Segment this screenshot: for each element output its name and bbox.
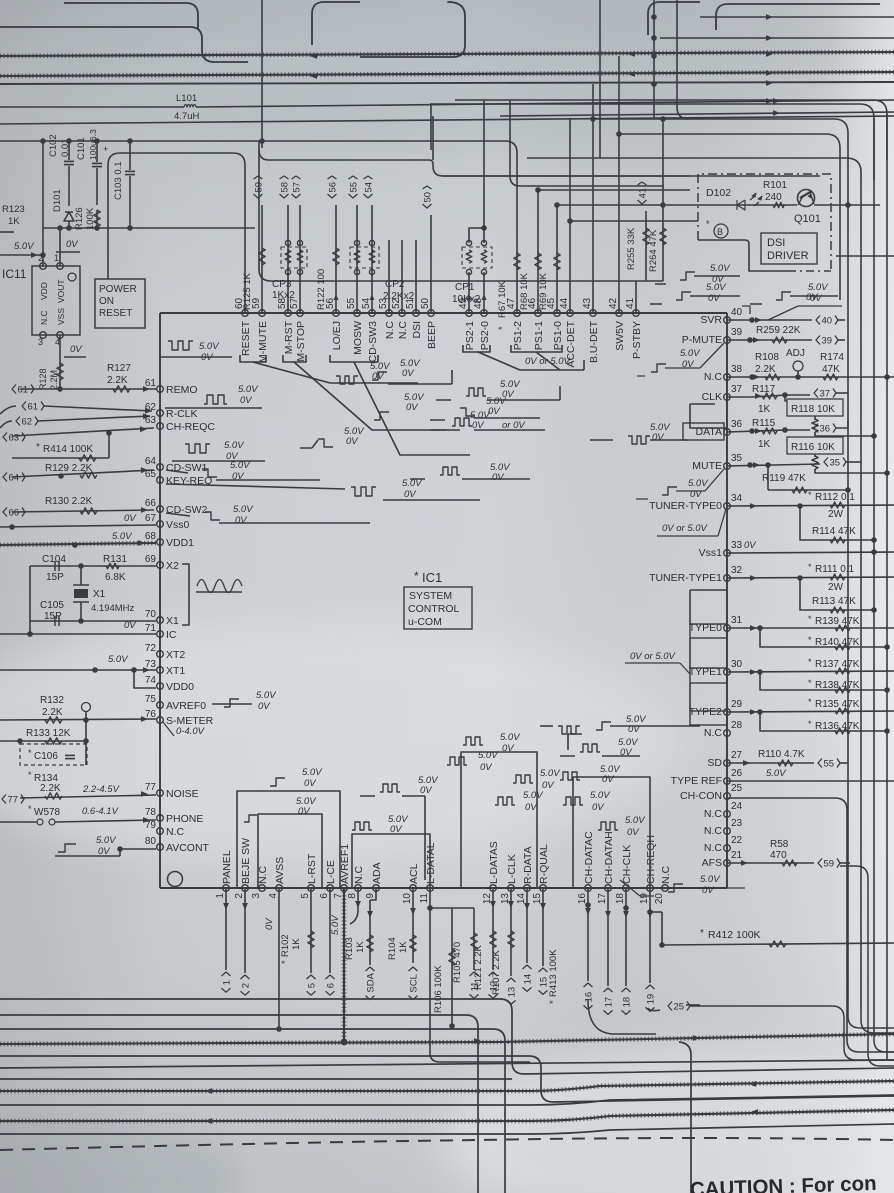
- wire DSI driver interior: [698, 240, 788, 271]
- svg-text:34: 34: [731, 493, 743, 504]
- wire top F y=160: [259, 150, 429, 160]
- connector arrow 62: [0, 421, 12, 428]
- CAUTION text: [689, 1172, 876, 1193]
- svg-text:0V: 0V: [602, 774, 615, 785]
- connector arrow 25 wire: [686, 1004, 700, 1006]
- svg-text:SCL: SCL: [409, 974, 420, 992]
- wire TYPE0 to TYPE1: [689, 638, 691, 668]
- svg-text:XT1: XT1: [166, 665, 185, 677]
- svg-text:5: 5: [307, 983, 318, 988]
- wire jog pins 73-74: [134, 670, 156, 688]
- svg-text:R107 2.2K: R107 2.2K: [491, 949, 502, 995]
- capacitor C106 dashed box: [20, 744, 87, 765]
- wire pin35 MUTE: [727, 464, 820, 466]
- resistor R118 below box: [814, 416, 816, 420]
- pin 57 M-STOP: [297, 310, 304, 317]
- svg-text:R-CLK: R-CLK: [166, 408, 198, 420]
- bus wire bottom 9 hatched: [0, 1110, 894, 1121]
- svg-text:R115: R115: [752, 418, 776, 429]
- pin 52 N.C: [399, 310, 406, 317]
- pin 22 N.C: [724, 845, 731, 852]
- wire with inductor L101: [0, 106, 184, 108]
- svg-text:*: *: [28, 804, 32, 814]
- svg-text:58: 58: [280, 182, 291, 193]
- wire to pin 80 AVCONT: [55, 855, 120, 857]
- svg-text:R174: R174: [820, 352, 844, 363]
- svg-text:R111 0.1: R111 0.1: [815, 564, 855, 575]
- resistor R138 47K: [760, 672, 887, 690]
- pin 44 ACC-DET: [567, 310, 574, 317]
- waveform SD net: [596, 722, 611, 730]
- svg-text:0V: 0V: [592, 802, 605, 813]
- svg-text:1: 1: [222, 980, 233, 985]
- svg-text:*: *: [414, 569, 419, 583]
- svg-text:22: 22: [731, 835, 743, 846]
- svg-text:W578: W578: [34, 807, 61, 818]
- svg-text:62: 62: [145, 402, 157, 413]
- svg-text:R264 47K: R264 47K: [648, 229, 659, 272]
- pin 16 CH-DATAC: [585, 885, 592, 892]
- svg-text:35: 35: [731, 453, 743, 464]
- wire to pin 62 upper: [44, 406, 152, 411]
- wire pin34 TUNER-TYPE0 with R112 R114: [727, 505, 894, 506]
- svg-text:37: 37: [731, 384, 743, 395]
- svg-text:M-RST: M-RST: [283, 320, 295, 354]
- svg-text:100u6.3: 100u6.3: [88, 129, 98, 160]
- bracket PS pins: [463, 345, 562, 352]
- pin 78 PHONE: [157, 815, 164, 822]
- svg-text:2: 2: [241, 983, 252, 988]
- svg-text:SYSTEM: SYSTEM: [409, 590, 452, 602]
- svg-text:*: *: [700, 928, 704, 939]
- resistor R67 10K: [514, 253, 520, 270]
- svg-text:VOUT: VOUT: [56, 279, 66, 303]
- svg-text:AVREF0: AVREF0: [166, 700, 206, 712]
- svg-text:1: 1: [54, 253, 59, 263]
- DSI DRIVER box: [761, 233, 817, 264]
- svg-text:M-MUTE: M-MUTE: [257, 321, 269, 363]
- svg-text:16: 16: [584, 992, 595, 1003]
- pin 68 VDD1: [157, 539, 164, 546]
- svg-text:BEEP: BEEP: [426, 321, 438, 349]
- svg-text:0V: 0V: [124, 620, 137, 631]
- svg-text:77: 77: [8, 795, 19, 806]
- svg-text:14: 14: [523, 974, 534, 985]
- svg-text:X1: X1: [166, 615, 179, 627]
- svg-text:+: +: [103, 144, 108, 154]
- waveform L-CE group: [244, 815, 257, 822]
- connector arrow 61 a: [12, 385, 34, 396]
- svg-text:35: 35: [830, 458, 841, 469]
- svg-text:66: 66: [145, 498, 157, 509]
- resistor R116 below box: [814, 454, 816, 457]
- wire pin32 TUNER-TYPE1 with R111 R113: [727, 577, 894, 578]
- svg-text:15P: 15P: [46, 572, 64, 583]
- svg-text:14: 14: [516, 893, 527, 905]
- wire pin13 down with R107: [510, 888, 512, 976]
- svg-text:16: 16: [577, 893, 588, 905]
- wire pin14 down: [526, 888, 528, 963]
- rect box TYPE0: [690, 624, 727, 638]
- svg-text:CH-CON: CH-CON: [680, 790, 722, 802]
- svg-text:R127: R127: [107, 363, 131, 374]
- svg-text:LO/EJ: LO/EJ: [331, 321, 343, 350]
- svg-text:R135 47K: R135 47K: [815, 699, 860, 710]
- svg-text:69: 69: [145, 554, 157, 565]
- waveform CH-DATAC low group: [563, 797, 583, 805]
- svg-text:27: 27: [731, 750, 743, 761]
- svg-text:N.C: N.C: [166, 826, 185, 838]
- svg-text:0V: 0V: [502, 389, 515, 400]
- wire TYPE1 to TYPE2: [689, 683, 691, 711]
- svg-text:TYPE REF: TYPE REF: [671, 775, 722, 787]
- wire pin53 vertical: [388, 240, 390, 313]
- svg-text:R69 10K: R69 10K: [538, 272, 549, 310]
- svg-text:TUNER-TYPE0: TUNER-TYPE0: [649, 500, 722, 512]
- pin 17 CH-DATAH: [605, 885, 612, 892]
- pin 42 SW5V: [616, 310, 623, 317]
- pin 47 PS1-2: [514, 310, 521, 317]
- resistor R101 240: [773, 202, 784, 207]
- svg-text:2: 2: [234, 893, 245, 899]
- wire pin54 vertical: [371, 205, 373, 313]
- svg-text:5.0V: 5.0V: [700, 874, 721, 885]
- svg-text:R101: R101: [763, 180, 787, 191]
- wire pin46 vertical with R68: [537, 190, 539, 313]
- svg-text:C105: C105: [40, 600, 64, 611]
- svg-text:5.0V: 5.0V: [224, 440, 245, 451]
- svg-text:DSI: DSI: [767, 237, 785, 249]
- wire pin41 vertical: [635, 281, 637, 313]
- resistor R128 2.2M: [57, 363, 63, 380]
- svg-text:2: 2: [38, 253, 43, 263]
- svg-text:X2: X2: [166, 560, 179, 572]
- pin 41 P-STBY: [633, 310, 640, 317]
- waveform CH top: [558, 726, 580, 734]
- resistor R412 100K: [662, 943, 894, 945]
- svg-text:*: *: [808, 562, 812, 572]
- wire pin9 down with R103 to SDA: [370, 888, 376, 965]
- svg-text:18: 18: [615, 893, 626, 905]
- svg-text:RESET: RESET: [99, 308, 132, 319]
- svg-text:R259 22K: R259 22K: [756, 325, 801, 336]
- resistor R112 0.1: [830, 502, 845, 508]
- svg-text:VSS: VSS: [56, 308, 66, 325]
- svg-text:0V: 0V: [264, 917, 275, 930]
- svg-text:R103: R103: [344, 937, 355, 960]
- pin 10 ACL: [410, 885, 417, 892]
- svg-text:N.C: N.C: [353, 866, 365, 885]
- pin 24 N.C: [724, 811, 731, 818]
- wire branch to R106: [430, 907, 452, 909]
- resistor R135 47K: [835, 708, 850, 714]
- diode D102 LED: [737, 196, 759, 210]
- resistor R255 33K: [645, 211, 647, 281]
- bus wire nest y221: [570, 220, 698, 222]
- svg-text:5.0V: 5.0V: [108, 654, 129, 665]
- svg-text:470: 470: [770, 850, 787, 861]
- pin 3 N.C: [259, 885, 266, 892]
- pin 7 AVREF1: [341, 885, 348, 892]
- svg-text:5.0V: 5.0V: [233, 504, 254, 515]
- svg-text:R128: R128: [38, 368, 48, 390]
- svg-text:CH-DATAC: CH-DATAC: [583, 831, 595, 884]
- svg-text:0V: 0V: [627, 827, 640, 838]
- svg-text:11: 11: [419, 893, 430, 904]
- svg-text:71: 71: [145, 623, 157, 634]
- svg-text:20: 20: [654, 893, 665, 905]
- IC U1 main outline IC1: [160, 313, 727, 888]
- svg-text:2.2-4.5V: 2.2-4.5V: [82, 784, 121, 795]
- svg-text:57: 57: [292, 182, 303, 193]
- svg-text:61: 61: [18, 385, 29, 396]
- svg-text:2.2K: 2.2K: [42, 707, 63, 718]
- connector arrow 64: [3, 473, 25, 484]
- wire IC11 VSS down: [59, 335, 61, 389]
- wire AFS corner down: [840, 866, 894, 1066]
- wire pin10 down with R104 to SCL: [412, 888, 414, 963]
- bracket LO-EJ MOSW CD-SW3 group: [330, 355, 378, 362]
- svg-text:23: 23: [731, 818, 743, 829]
- svg-text:R255 33K: R255 33K: [626, 227, 637, 270]
- waveform MUTE net: [662, 487, 677, 495]
- svg-text:ADJ: ADJ: [786, 348, 805, 359]
- connector SDA: [366, 967, 377, 1000]
- crystal X1: [80, 566, 82, 585]
- svg-text:R58: R58: [770, 839, 789, 850]
- svg-text:Vss1: Vss1: [699, 547, 723, 559]
- capacitor C101 electrolytic: [96, 141, 98, 162]
- svg-text:0-4.0V: 0-4.0V: [176, 726, 206, 737]
- wire pin6 down: [329, 888, 331, 973]
- svg-text:25: 25: [674, 1002, 685, 1013]
- wire rect pins 16-19: [573, 777, 650, 888]
- svg-text:75: 75: [145, 694, 157, 705]
- resistor R140 47K: [760, 628, 887, 647]
- svg-text:5.0V: 5.0V: [14, 241, 35, 252]
- bus wire top D: [0, 116, 894, 124]
- pin 14 R-DATA: [524, 885, 531, 892]
- pin 23 N.C: [724, 828, 731, 835]
- svg-text:0V: 0V: [652, 432, 665, 443]
- resistor R110 4.7K: [778, 760, 793, 766]
- svg-text:78: 78: [145, 807, 157, 818]
- resistor R113 47K: [800, 578, 874, 610]
- svg-text:55: 55: [349, 182, 360, 193]
- pin 9 ADA: [373, 885, 380, 892]
- resistor R68 10K: [535, 253, 541, 270]
- svg-text:R132: R132: [40, 695, 64, 706]
- svg-text:R106 100K: R106 100K: [433, 965, 444, 1013]
- svg-text:42: 42: [608, 297, 619, 309]
- pin 25 CH-CON: [724, 793, 731, 800]
- svg-text:TUNER-TYPE1: TUNER-TYPE1: [649, 572, 722, 584]
- svg-text:R116 10K: R116 10K: [791, 442, 835, 453]
- svg-text:AVCONT: AVCONT: [166, 842, 210, 854]
- svg-text:R136 47K: R136 47K: [815, 721, 860, 732]
- svg-text:240: 240: [765, 192, 782, 203]
- pin 12 L-DATAS: [490, 885, 497, 892]
- wire S-METER: [0, 719, 156, 720]
- svg-text:0V: 0V: [420, 785, 433, 796]
- svg-text:0V or 5.0V: 0V or 5.0V: [662, 523, 709, 534]
- svg-text:R114 47K: R114 47K: [812, 526, 856, 537]
- svg-text:PS2-1: PS2-1: [464, 321, 476, 350]
- svg-text:79: 79: [145, 820, 157, 831]
- svg-text:CH-REQH: CH-REQH: [645, 835, 657, 884]
- wire branch R105: [452, 907, 474, 909]
- svg-text:43: 43: [582, 297, 593, 309]
- svg-text:PS1-2: PS1-2: [512, 321, 524, 350]
- svg-text:1Kx2: 1Kx2: [272, 290, 295, 301]
- svg-text:44: 44: [559, 297, 570, 309]
- waveform CLK net: [628, 436, 650, 444]
- svg-text:36: 36: [731, 419, 743, 430]
- wire pin29 TYPE2 with R135 R136: [727, 711, 894, 712]
- resistor R105 470: [471, 933, 477, 950]
- svg-text:100K: 100K: [85, 207, 96, 230]
- pin 8 N.C: [355, 885, 362, 892]
- wire pin50 vertical: [430, 215, 432, 313]
- wire right edge verticals to bus: [848, 1005, 894, 1028]
- IC1 function box SYSTEM CONTROL u-COM: [404, 587, 472, 629]
- svg-text:CH-DATAH: CH-DATAH: [603, 831, 615, 884]
- pin 46 PS1-1: [535, 310, 542, 317]
- svg-text:77: 77: [145, 782, 157, 793]
- svg-text:5.0V: 5.0V: [230, 460, 251, 471]
- bus wire bottom 6b: [0, 1078, 512, 1080]
- svg-text:1K: 1K: [355, 941, 366, 953]
- svg-text:L-DATAS: L-DATAS: [488, 841, 500, 884]
- svg-text:2.2K: 2.2K: [107, 375, 128, 386]
- svg-text:29: 29: [731, 699, 743, 710]
- svg-text:*: *: [706, 219, 710, 229]
- svg-text:D101: D101: [52, 189, 63, 212]
- IC1 pin-1 indicator circle: [168, 872, 183, 887]
- svg-text:19: 19: [646, 994, 657, 1005]
- connector arrow 41: [638, 182, 649, 204]
- pin 2 BEJE SW: [242, 885, 249, 892]
- svg-text:65: 65: [145, 469, 157, 480]
- svg-text:VDD0: VDD0: [166, 681, 194, 693]
- wire to pin 63: [12, 428, 154, 436]
- resistor R122 100: [333, 248, 339, 265]
- pin 55 MOSW: [354, 310, 361, 317]
- waveform AVREF0: [212, 703, 252, 705]
- svg-text:21: 21: [731, 850, 743, 861]
- svg-text:CH-CLK: CH-CLK: [621, 845, 633, 884]
- pin 76 S-METER: [157, 717, 164, 724]
- svg-text:R105 470: R105 470: [452, 942, 463, 983]
- svg-text:L-CE: L-CE: [325, 860, 337, 884]
- wire pin4 down 0V: [278, 888, 280, 1029]
- rect box TYPE2: [690, 711, 727, 725]
- svg-text:NOISE: NOISE: [166, 788, 199, 800]
- svg-text:Q101: Q101: [794, 213, 821, 225]
- svg-text:IC11: IC11: [2, 267, 27, 281]
- resistor R121 2.2K: [490, 931, 496, 948]
- pin 58 M-RST: [285, 310, 292, 317]
- svg-text:SD: SD: [707, 757, 722, 769]
- op-amp IC11 reset IC box: [32, 266, 80, 335]
- potentiometer ADJ: [793, 361, 803, 371]
- wire pin1 down: [225, 888, 227, 970]
- svg-text:24: 24: [731, 801, 743, 812]
- arrows on top pin wires: [334, 294, 339, 300]
- resistor R108 2.2K: [765, 374, 780, 380]
- svg-text:R110 4.7K: R110 4.7K: [758, 749, 805, 760]
- svg-text:*: *: [548, 1000, 559, 1004]
- vertical wire x=677 top: [677, 0, 689, 119]
- pin 29 TYPE2: [724, 709, 731, 716]
- bus wire bottom 2: [0, 1015, 478, 1193]
- svg-text:0V: 0V: [240, 395, 253, 406]
- connector arrow 63: [3, 433, 25, 444]
- pin 1 PANEL: [223, 885, 230, 892]
- svg-text:19: 19: [639, 893, 650, 905]
- bus wires right nest: [455, 100, 887, 160]
- vertical wire x=600 top: [599, 0, 601, 158]
- svg-text:0V: 0V: [542, 780, 555, 791]
- svg-text:50: 50: [420, 297, 431, 309]
- leader RESET group waveform: [253, 362, 418, 383]
- svg-text:2.2Kx2: 2.2Kx2: [383, 291, 415, 302]
- svg-text:L-CLK: L-CLK: [506, 854, 518, 884]
- bus wire bottom 5: [0, 1056, 894, 1102]
- resistor R106 100K: [449, 949, 455, 966]
- svg-text:C101: C101: [76, 137, 87, 160]
- svg-text:*: *: [280, 960, 291, 964]
- svg-text:0V: 0V: [402, 368, 415, 379]
- svg-text:0V: 0V: [488, 406, 501, 417]
- svg-text:*: *: [36, 442, 40, 453]
- wire top G vertical x=433: [432, 116, 434, 160]
- svg-text:5.0V: 5.0V: [199, 341, 220, 352]
- svg-text:62: 62: [22, 417, 33, 428]
- pin 54 CD-SW3: [369, 310, 376, 317]
- svg-text:2W: 2W: [828, 582, 844, 593]
- svg-text:ON: ON: [99, 296, 114, 307]
- pin 70 X1: [157, 617, 164, 624]
- resistor R136 47K: [760, 712, 887, 731]
- svg-text:AVSS: AVSS: [274, 857, 286, 884]
- svg-text:28: 28: [731, 720, 743, 731]
- wire pin38 with R108 R174: [727, 376, 894, 378]
- pin 66 CD-SW2: [157, 506, 164, 513]
- bus wire bottom dashed: [0, 1138, 894, 1150]
- bus wire bottom 8: [0, 1095, 894, 1105]
- pin 61 REMO: [157, 386, 164, 393]
- diode D101: [64, 212, 74, 221]
- pin 67 Vss0: [157, 521, 164, 528]
- pin 21 AFS: [724, 860, 731, 867]
- svg-text:R108: R108: [755, 352, 779, 363]
- wire pin18 down: [625, 888, 627, 986]
- svg-text:4.194MHz: 4.194MHz: [91, 603, 135, 614]
- wire pin59 vertical with R125: [261, 205, 263, 313]
- pin 62 R-CLK: [157, 410, 164, 417]
- svg-text:N.C: N.C: [704, 727, 723, 739]
- pin 71 IC: [157, 631, 164, 638]
- svg-text:64: 64: [145, 456, 157, 467]
- svg-text:*: *: [808, 635, 812, 645]
- svg-text:5.0V: 5.0V: [590, 790, 611, 801]
- wire pin19 down: [649, 888, 651, 983]
- wire pin5 down with R102: [310, 888, 312, 973]
- svg-text:R125 1K: R125 1K: [242, 272, 253, 310]
- svg-text:R130 2.2K: R130 2.2K: [45, 496, 93, 507]
- svg-text:5.0V: 5.0V: [688, 478, 709, 489]
